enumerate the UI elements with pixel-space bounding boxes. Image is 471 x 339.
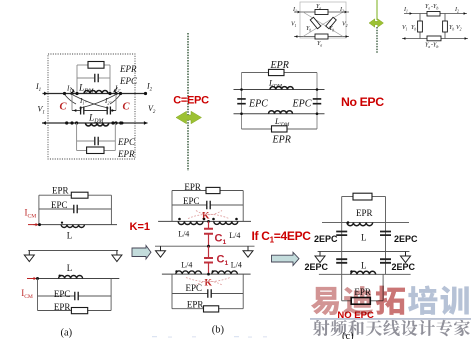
inductor LDM mid bbox=[270, 87, 293, 90]
coupling arc cross left-to-right bbox=[73, 95, 108, 108]
svg-text:No EPC: No EPC bbox=[341, 95, 384, 109]
EPC/EPR loop wires bottom bbox=[76, 123, 78, 151]
svg-text:L/4: L/4 bbox=[181, 261, 192, 270]
capacitor EPC (b) bottom bbox=[208, 289, 211, 298]
arrow ICM (a) top bbox=[28, 224, 36, 226]
capacitor EPC (b) top bbox=[207, 201, 210, 210]
resistor Ya bottom bbox=[315, 34, 328, 39]
resistor EPR (b) bottom bbox=[204, 306, 219, 312]
capacitor EPC top bbox=[95, 74, 98, 83]
(b) rails top bbox=[171, 191, 173, 222]
resistor EPR mid top bbox=[269, 69, 285, 75]
(b) main wire 1 bbox=[158, 220, 251, 222]
node dots mid wire1 bbox=[240, 88, 243, 91]
capacitor C left bbox=[81, 107, 84, 115]
(a) bottom rails bbox=[37, 279, 39, 311]
svg-text:EPC: EPC bbox=[183, 196, 200, 206]
watermark line1 bbox=[311, 286, 469, 316]
green double arrow 2 bbox=[369, 19, 383, 27]
svg-text:EPR: EPR bbox=[117, 149, 135, 159]
dashed enclosure box of coupled-inductor two-port bbox=[48, 54, 135, 159]
(b) bottom rail bbox=[172, 308, 204, 310]
(b) ground line bbox=[155, 245, 255, 247]
inductor L (a) top bbox=[61, 225, 84, 228]
green divider line 2 bbox=[376, 0, 378, 20]
node I1 arrow bbox=[44, 92, 47, 96]
lattice diagonal wires bbox=[303, 12, 343, 37]
pi rails bbox=[419, 14, 421, 39]
svg-text:2EPC: 2EPC bbox=[305, 262, 329, 272]
arrow V1 port bbox=[43, 121, 46, 125]
(a) ground line bbox=[28, 250, 118, 252]
watermark underline bbox=[310, 318, 471, 320]
(a) top rail EPR bbox=[39, 194, 71, 196]
svg-text:EPC: EPC bbox=[117, 137, 136, 147]
resistor Yb right bbox=[443, 21, 448, 32]
current arrow I1p bbox=[71, 88, 75, 92]
red capacitor C1 bottom bbox=[208, 246, 210, 257]
node dot center (b) top bbox=[207, 220, 210, 223]
(a) top rails bbox=[38, 195, 40, 224]
capacitor EPC (a) top bbox=[74, 205, 77, 214]
wire top port line bbox=[43, 93, 147, 95]
mid circuit rails bbox=[241, 73, 243, 130]
ground right (b) bbox=[243, 246, 253, 257]
svg-text:2EPC: 2EPC bbox=[394, 234, 418, 244]
inductor L (c) top bbox=[347, 223, 373, 226]
wire bottom port line bbox=[42, 122, 148, 124]
svg-text:EPR: EPR bbox=[187, 300, 204, 310]
svg-text:L/4: L/4 bbox=[229, 231, 240, 240]
arrow ICM (a) bottom bbox=[27, 278, 34, 280]
(a) EPC rung bottom bbox=[38, 295, 75, 297]
resistor Ya-Yb top bbox=[427, 12, 440, 17]
svg-text:EPC: EPC bbox=[119, 76, 138, 86]
capacitor 2EPC (c) top-left bbox=[341, 223, 343, 252]
svg-text:EPR: EPR bbox=[270, 60, 289, 71]
pi bottom wire bbox=[402, 38, 468, 40]
block arrow a-to-b bbox=[132, 246, 151, 260]
resistor EPR (c) top bbox=[353, 193, 372, 200]
svg-text:C=EPC: C=EPC bbox=[173, 95, 209, 107]
resistor Yb left bbox=[418, 21, 423, 32]
EPR loop wires top bbox=[76, 65, 78, 94]
node dot right end wire1 bbox=[144, 92, 147, 95]
svg-text:-Yb: -Yb bbox=[431, 4, 438, 10]
watermark line2 bbox=[313, 320, 470, 337]
svg-text:EPR: EPR bbox=[119, 64, 137, 74]
inductor L (a) bottom bbox=[59, 276, 83, 279]
svg-text:EPC: EPC bbox=[186, 283, 203, 293]
arrow V2 port bbox=[144, 121, 147, 125]
inductor L (c) bottom bbox=[351, 271, 376, 274]
node dots mid wire2 bbox=[240, 112, 243, 115]
resistor Ya-Yb bottom bbox=[427, 36, 441, 41]
resistor EPR bottom bbox=[87, 147, 104, 154]
(a) main wire top bbox=[33, 224, 117, 226]
ground right (a) bbox=[112, 251, 122, 262]
svg-text:K: K bbox=[205, 279, 213, 289]
(c) wire 2 bbox=[319, 273, 411, 275]
resistor EPR (c) bottom bbox=[351, 298, 370, 305]
(b) EPC rung top bbox=[172, 204, 207, 206]
svg-text:EPR: EPR bbox=[52, 186, 69, 196]
green double arrow bbox=[176, 111, 202, 124]
node dots wire2 bbox=[65, 121, 68, 124]
coupling arc outer right bbox=[110, 95, 120, 104]
resistor Ya top bbox=[315, 10, 328, 15]
svg-text:2EPC: 2EPC bbox=[314, 234, 338, 244]
lattice bottom wire bbox=[294, 36, 349, 38]
capacitor EPC (a) bottom bbox=[75, 292, 78, 301]
svg-text:(b): (b) bbox=[212, 325, 225, 336]
(c) ground line bbox=[318, 251, 410, 253]
ground right (c) bbox=[401, 252, 411, 263]
svg-text:EPR: EPR bbox=[184, 182, 201, 192]
svg-text:EPC: EPC bbox=[292, 99, 312, 110]
current arrow I2p bbox=[114, 88, 118, 92]
lattice outer box bbox=[300, 2, 346, 38]
(a) main wire bottom bbox=[27, 278, 119, 280]
resistor Yb diagonal right bbox=[326, 17, 337, 28]
(b) top rail bbox=[172, 190, 206, 192]
mid bottom rail bbox=[242, 128, 272, 130]
inductor L/4 (b) top-right bbox=[214, 221, 238, 224]
resistor EPR top bbox=[88, 62, 104, 69]
capacitor EPC mid left bbox=[237, 99, 246, 104]
resistor EPR mid bottom bbox=[272, 126, 288, 132]
lattice top wire bbox=[294, 11, 349, 13]
inductor LDM top bbox=[84, 91, 108, 94]
svg-text:L/4: L/4 bbox=[231, 261, 242, 270]
inductor LDM2 mid bbox=[269, 111, 293, 114]
resistor Yb diagonal left bbox=[310, 17, 321, 28]
svg-text:EPC: EPC bbox=[248, 99, 268, 110]
svg-text:K=1: K=1 bbox=[130, 221, 151, 233]
wire EPC rung top bbox=[77, 77, 94, 79]
capacitor 2EPC (c) bottom-left bbox=[341, 252, 343, 275]
svg-text:If C1=4EPC: If C1=4EPC bbox=[252, 229, 312, 245]
svg-text:L: L bbox=[361, 233, 367, 243]
(c) EPR loop top bbox=[341, 197, 343, 223]
capacitor 2EPC (c) top-right bbox=[385, 223, 387, 252]
(c) wire 1 bbox=[322, 222, 409, 224]
svg-text:EPR: EPR bbox=[54, 302, 71, 312]
mid wire1 bbox=[234, 89, 325, 91]
(b) EPC rung bottom bbox=[172, 293, 208, 295]
(b) rails bottom bbox=[171, 274, 173, 309]
red capacitor C1 top bbox=[208, 221, 210, 228]
coupling arc outer left bbox=[65, 95, 76, 104]
ground left (c) bbox=[315, 252, 325, 263]
capacitor C right bbox=[107, 107, 110, 115]
(a) bottom rail EPR bbox=[38, 310, 72, 312]
node dot center (b) bottom bbox=[207, 273, 210, 276]
(a) EPC rung bbox=[39, 208, 74, 210]
node dots wire1 bbox=[63, 92, 66, 95]
resistor EPR (b) top bbox=[206, 187, 220, 193]
pi top wire bbox=[404, 13, 467, 15]
mid top rail bbox=[242, 72, 269, 74]
svg-text:2EPC: 2EPC bbox=[392, 262, 416, 272]
svg-text:C: C bbox=[60, 102, 68, 113]
resistor EPR (a) top bbox=[71, 192, 88, 198]
svg-text:EPC: EPC bbox=[54, 289, 71, 299]
capacitor 2EPC (c) bottom-right bbox=[385, 252, 387, 275]
faint blue caption fragments bbox=[152, 336, 267, 337]
svg-text:-Yb: -Yb bbox=[431, 43, 438, 49]
capacitor EPC bottom bbox=[95, 137, 98, 146]
svg-text:L: L bbox=[67, 263, 73, 273]
resistor EPR (a) bottom bbox=[71, 308, 87, 314]
svg-text:EPC: EPC bbox=[51, 200, 68, 210]
K dashed arcs top bbox=[188, 211, 229, 219]
K dashed arcs bottom bbox=[186, 278, 230, 286]
block arrow b-to-c bbox=[272, 252, 300, 265]
green dotted divider line bbox=[187, 33, 189, 171]
(c) EPR loop bottom bbox=[341, 274, 343, 300]
svg-text:L: L bbox=[67, 231, 73, 241]
ground left (a) bbox=[24, 251, 34, 262]
node dot wire2 x122 bbox=[121, 122, 124, 125]
inductor L/4 (b) bottom-left bbox=[176, 271, 202, 274]
svg-text:EPR: EPR bbox=[272, 135, 291, 146]
ground left (b) bbox=[156, 246, 166, 257]
(b) main wire 2 bbox=[162, 273, 251, 275]
svg-text:EPR: EPR bbox=[356, 208, 373, 218]
svg-text:(a): (a) bbox=[61, 328, 73, 339]
svg-text:L: L bbox=[361, 261, 367, 271]
svg-text:C: C bbox=[123, 102, 131, 113]
inductor LDM bottom bbox=[86, 123, 109, 126]
svg-text:L/4: L/4 bbox=[178, 230, 189, 239]
node dot ground center bbox=[207, 245, 210, 248]
inductor L/4 (b) bottom-right bbox=[212, 271, 238, 274]
coupling arc cross right-to-left bbox=[80, 95, 115, 108]
inductor L/4 (b) top-left bbox=[178, 221, 203, 224]
capacitor EPC mid right bbox=[313, 99, 322, 104]
wire capacitor row bbox=[71, 94, 73, 111]
mid wire2 bbox=[234, 113, 325, 115]
